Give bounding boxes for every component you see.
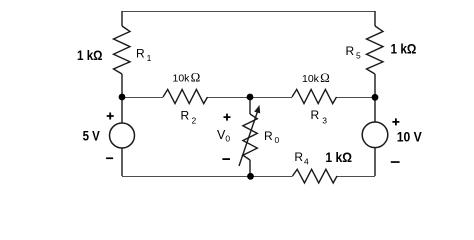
svg-text:R: R (264, 129, 273, 143)
svg-text:10 V: 10 V (397, 129, 422, 144)
svg-text:10kΩ: 10kΩ (173, 69, 201, 84)
svg-text:1 kΩ: 1 kΩ (77, 48, 103, 63)
svg-text:1: 1 (147, 53, 152, 63)
svg-text:0: 0 (275, 135, 280, 145)
svg-text:10kΩ: 10kΩ (302, 70, 330, 85)
svg-text:1 kΩ: 1 kΩ (325, 150, 352, 165)
svg-text:5: 5 (356, 51, 361, 61)
svg-text:1 kΩ: 1 kΩ (391, 42, 417, 57)
svg-text:R: R (311, 108, 320, 122)
svg-text:R: R (181, 109, 190, 123)
svg-text:0: 0 (225, 133, 230, 143)
svg-text:2: 2 (192, 115, 197, 125)
svg-text:R: R (294, 150, 303, 164)
svg-text:R: R (346, 44, 355, 58)
svg-text:3: 3 (322, 116, 327, 126)
svg-text:R: R (136, 47, 145, 61)
svg-text:4: 4 (304, 157, 309, 167)
svg-text:5 V: 5 V (83, 129, 100, 144)
